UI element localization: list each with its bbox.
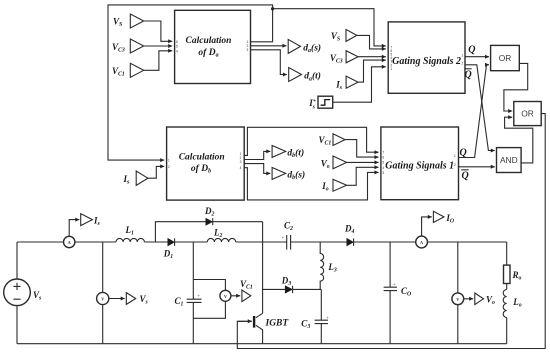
- inductor Lo vertical: [503, 290, 506, 318]
- svg-text:A: A: [68, 240, 71, 245]
- wire Ro to Lo: [506, 284, 508, 290]
- wire Lo to bottom rail: [506, 318, 508, 344]
- capacitor C2 (series): [287, 235, 291, 250]
- svg-text:3: 3: [240, 160, 242, 164]
- wire db to db(s) buffer: [244, 164, 270, 174]
- svg-text:4: 4: [382, 166, 384, 170]
- svg-text:Q: Q: [468, 44, 475, 55]
- wire Da pin2 to da(s) buffer: [251, 45, 287, 47]
- wire: da feedback loop from Calculation of Da pin1 around top-left to Calculation of Db pin1: [108, 5, 273, 160]
- svg-text:OR: OR: [499, 53, 512, 63]
- svg-text:Q: Q: [465, 69, 472, 80]
- voltmeter branch Vs: [102, 242, 104, 292]
- wire db top route: Db pin1 to Gating Signals 1 pin7: [244, 127, 378, 155]
- svg-text:Calculation: Calculation: [179, 152, 225, 162]
- inductor L3 vertical: [320, 242, 323, 289]
- wire VC3 to GS2 pin5: [358, 56, 386, 58]
- wire Io tap: [422, 217, 432, 236]
- svg-text:da(t): da(t): [304, 71, 321, 83]
- wire rail after L2 to C2: [236, 241, 287, 243]
- wire Is tap: [69, 220, 79, 237]
- wire Vo to GS1 pin5: [347, 161, 379, 163]
- svg-text:2: 2: [168, 165, 170, 169]
- wire AND out to OR2 input2: [505, 117, 533, 163]
- gate AND: [497, 148, 522, 173]
- buffer VS (right column): [346, 29, 357, 41]
- svg-text:6: 6: [382, 156, 384, 160]
- wire GS1 Q diagonal up to OR1 input2: [459, 65, 490, 158]
- buffer da(s): [288, 39, 300, 53]
- buffer Io tap: [433, 211, 444, 222]
- buffer VC1 (mid column): [333, 134, 345, 146]
- buffer VC1 measure: [242, 290, 251, 302]
- gate OR1: [491, 45, 520, 70]
- block U1 Calculation of Da: [175, 10, 251, 83]
- buffer db(t): [272, 146, 286, 158]
- buffer Vs measure: [126, 293, 135, 305]
- svg-text:+: +: [197, 295, 200, 300]
- svg-text:AND: AND: [500, 155, 518, 165]
- buffer da(t): [289, 68, 302, 82]
- buffer VS (top-left): [130, 14, 143, 28]
- voltmeter VC1: [220, 290, 231, 301]
- buffer VC1 (top-left): [130, 63, 143, 77]
- wire rail D1 to L2: [144, 241, 167, 243]
- wire rail C2 to D4: [291, 241, 347, 243]
- wire OR1 out to OR2 input1: [504, 63, 528, 111]
- capacitor C1 branch: [187, 242, 202, 344]
- svg-text:Q: Q: [462, 170, 469, 181]
- svg-text:1: 1: [462, 53, 464, 57]
- svg-text:Gating Signals 1: Gating Signals 1: [385, 161, 454, 172]
- svg-text:IGBT: IGBT: [265, 318, 290, 328]
- buffer Is (left, into Db): [136, 171, 148, 185]
- inductor L1: [116, 238, 144, 242]
- voltage source Vs: [16, 242, 18, 279]
- svg-text:3: 3: [247, 48, 249, 52]
- svg-text:2: 2: [454, 163, 456, 167]
- diode D1: [168, 238, 175, 246]
- svg-text:4: 4: [176, 49, 178, 53]
- buffer Io (mid column): [333, 179, 347, 191]
- voltmeter branch Vo: [457, 242, 459, 293]
- inductor L2: [207, 238, 235, 242]
- buffer Is (right column): [346, 76, 358, 88]
- svg-text:V: V: [224, 294, 227, 299]
- wire Is* to GS2 pin3: [333, 67, 386, 102]
- wire voltmeter to VC1 buffer: [231, 295, 240, 297]
- buffer Is tap: [81, 214, 93, 226]
- diode D3 branch: [263, 288, 322, 290]
- wire D2 bypass branch: [155, 222, 262, 242]
- wire VC1 to Da pin 4: [144, 51, 173, 71]
- wire VC3 to Da pin 5: [144, 45, 173, 47]
- svg-text:db(s): db(s): [287, 169, 305, 181]
- ammeter A (input current): [63, 236, 74, 247]
- wire bottom rail: [17, 343, 507, 345]
- wire db bottom route: Db pin4 to Gating Signals 1 pin3: [244, 168, 378, 200]
- svg-text:+: +: [282, 236, 285, 241]
- wire VS to Da pin 6: [144, 21, 173, 41]
- diode D2: [206, 218, 213, 225]
- wire switch node vertical: [262, 222, 264, 314]
- block U3 Gating Signals 1: [381, 127, 459, 200]
- wire rail D4 to load: [354, 241, 507, 243]
- svg-text:4: 4: [240, 166, 242, 170]
- wire VS to GS2 pin6: [357, 35, 386, 49]
- wire top rail left segment: [17, 241, 116, 243]
- svg-text:OR: OR: [521, 109, 534, 119]
- block U4 Gating Signals 2: [388, 22, 465, 93]
- svg-text:2: 2: [462, 62, 464, 66]
- svg-text:1: 1: [390, 67, 392, 71]
- svg-text:Gating Signals 2: Gating Signals 2: [392, 56, 461, 67]
- voltmeter loop across C1: [193, 280, 225, 319]
- wire voltmeter to Vo buffer: [464, 298, 474, 300]
- buffer Vo (mid column): [333, 156, 347, 169]
- diode D4: [347, 238, 354, 246]
- source Is* step reference block: [318, 96, 333, 108]
- wire db to db(t) buffer: [244, 151, 270, 159]
- svg-text:db(t): db(t): [287, 147, 304, 159]
- buffer Vo measure: [475, 293, 484, 305]
- wire Is to GS2 pin4: [358, 60, 386, 82]
- wire GS2 Q to OR1 input1: [465, 56, 489, 58]
- wire: da branch to Gating Signals 2 pin 7: [273, 9, 386, 46]
- svg-text:V: V: [101, 297, 104, 302]
- wire voltmeter to Vs buffer: [109, 298, 125, 300]
- wire GS2 Qbar diagonal down to AND input1: [465, 65, 495, 151]
- svg-text:V: V: [456, 297, 459, 302]
- buffer db(s): [272, 168, 286, 180]
- block U2 Calculation of Db: [167, 127, 245, 200]
- svg-text:Q: Q: [460, 147, 467, 158]
- wire VC1 to GS1 pin6: [345, 140, 379, 158]
- svg-text:of Da: of Da: [198, 48, 218, 59]
- resistor Ro: [504, 265, 511, 283]
- buffer VC3 (right column): [346, 51, 358, 63]
- svg-text:5: 5: [382, 161, 384, 165]
- wire Io to GS1 pin4: [347, 167, 379, 185]
- svg-text:7: 7: [382, 151, 384, 155]
- svg-text:3: 3: [382, 171, 384, 175]
- node junction on da wire: [271, 7, 274, 10]
- wire Is to Db pin 2: [148, 166, 164, 178]
- svg-text:+: +: [393, 283, 396, 288]
- buffer VC3 (top-left): [130, 39, 143, 53]
- capacitor C3: [315, 289, 328, 343]
- load branch wire: [506, 242, 508, 265]
- ammeter Io: [416, 236, 428, 248]
- svg-text:6: 6: [176, 40, 178, 44]
- svg-text:1: 1: [454, 154, 456, 158]
- transistor Q1 IGBT: [256, 313, 263, 343]
- svg-text:da(s): da(s): [303, 42, 321, 54]
- gate OR2: [514, 102, 541, 126]
- wire OR2 out down right side and along bottom to IGBT gate: [237, 114, 545, 349]
- svg-text:1: 1: [168, 159, 170, 163]
- svg-text:+: +: [326, 316, 329, 321]
- svg-text:of Db: of Db: [191, 164, 211, 175]
- capacitor Co: [384, 242, 397, 344]
- wire GS1 Qbar to AND input2: [459, 166, 495, 168]
- wire Da pin3 to da(t) buffer: [251, 50, 287, 75]
- svg-text:A: A: [420, 240, 423, 245]
- svg-text:Calculation: Calculation: [186, 36, 232, 46]
- svg-text:5: 5: [176, 45, 178, 49]
